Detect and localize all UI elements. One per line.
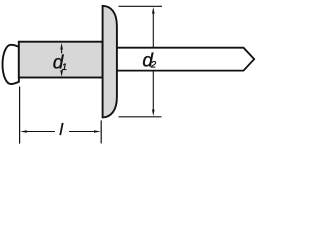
dimension d2: bottom extension line [119, 116, 162, 118]
dimension l: right extension line [100, 120, 102, 143]
svg-text:2: 2 [150, 60, 157, 71]
dimension l: right segment with arrow [69, 131, 97, 133]
dimension d2: top extension line [119, 5, 163, 7]
svg-text:1: 1 [62, 62, 67, 73]
svg-text:l: l [59, 120, 64, 139]
dimension d1: down arrow [61, 71, 63, 74]
dimension d2: top arrow line [152, 11, 154, 48]
dimension l: left extension line [19, 87, 21, 144]
flange (mushroom head) [103, 6, 117, 118]
mandrel head (bulb at left end) [3, 45, 19, 84]
rivet body (sleeve) [19, 42, 103, 78]
dimension d1: up arrow [61, 47, 63, 54]
dimension l: left segment with arrow [24, 131, 56, 133]
mandrel spike (pointed stem) [117, 48, 255, 71]
dimension d2: bottom arrow line [152, 71, 154, 112]
